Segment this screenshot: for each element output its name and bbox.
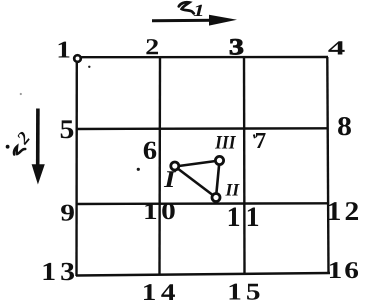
triangle vertex label III [215,136,222,148]
node 1 label [59,42,70,58]
wire: grid horizontal line row2 (nodes 5-8) [76,127,329,130]
wire: grid horizontal line row3 (nodes 9-12) [76,202,329,205]
triangle vertex III open circle [215,156,223,164]
axis i2 subscript 2 (rotated) [16,131,31,145]
node 7 label [256,133,266,148]
axis i1 arrowhead [209,15,237,26]
axis i2 label cursive i (rotated) [12,144,25,158]
node 8 label [338,117,351,135]
axis i2 arrowhead [32,164,45,184]
speck near node 1 [88,66,90,68]
triangle vertex label II [225,184,232,195]
node 6 label [144,142,156,159]
node 13 label [44,263,55,280]
wire: grid horizontal line row1 (nodes 1-4) [77,56,328,59]
faint speck upper-left margin [20,93,22,95]
node 5 label [61,120,74,138]
triangle vertex label I [164,171,176,187]
axis i1 arrow shaft [152,19,215,22]
node 16 label [330,262,341,278]
axis i1 subscript 1 [194,5,203,16]
wire: grid vertical line col1 (nodes 1-13) [75,57,78,276]
node 15 label [230,284,241,300]
node 3 label [230,39,243,54]
speck left of triangle [137,168,140,171]
node 4 label [328,41,344,54]
node 1 open circle marker [74,55,81,62]
wire: triangle edge I-III [175,161,220,167]
wire: triangle edge II-I [175,167,216,198]
axis i2 arrow shaft [36,109,40,168]
node 9 label [61,205,74,221]
node 10 label [145,203,156,219]
wire: grid vertical line col2 (nodes 2-14) [158,57,161,275]
triangle vertex II open circle [212,194,220,202]
node 14 label [144,284,155,300]
wire: grid horizontal line row4 (nodes 13-16) [76,273,330,276]
axis i2 label dot [6,145,10,149]
node 11 label [229,208,239,226]
triangle vertex I open circle [171,162,179,170]
node 12 label [329,202,340,220]
wire: grid vertical line col3 (nodes 3-15) [243,57,246,274]
node 2 label [146,39,158,54]
wire: grid vertical line col4 (nodes 4-16) [327,57,328,274]
wire: triangle edge III-II [216,161,220,198]
axis i1 label cursive i [179,2,194,13]
node 7 tick mark [254,135,255,139]
